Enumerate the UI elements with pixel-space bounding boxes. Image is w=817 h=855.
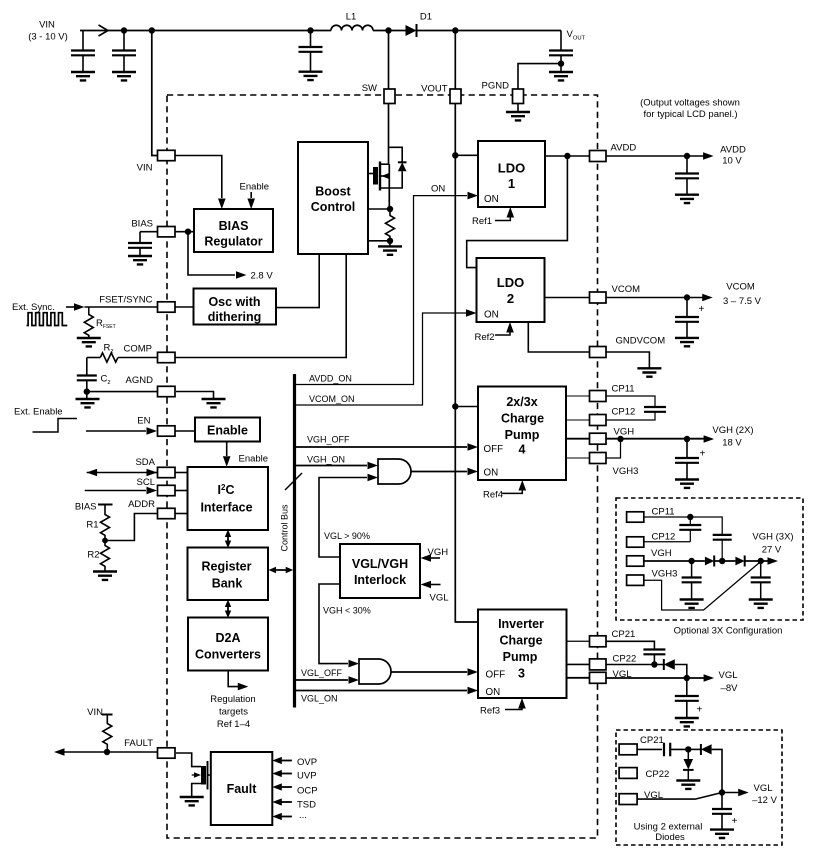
svg-text:Register: Register <box>201 560 251 574</box>
svg-text:AVDD_ON: AVDD_ON <box>309 374 352 384</box>
svg-text:AVDD: AVDD <box>720 145 746 156</box>
svg-text:VGL: VGL <box>718 670 737 681</box>
svg-text:Enable: Enable <box>207 424 248 438</box>
svg-text:–8V: –8V <box>721 683 739 694</box>
svg-text:CP22: CP22 <box>613 654 637 665</box>
svg-text:Inverter: Inverter <box>498 617 544 631</box>
svg-text:Regulation: Regulation <box>210 694 255 705</box>
svg-text:I2C: I2C <box>218 483 235 497</box>
svg-text:CP12: CP12 <box>612 407 636 418</box>
svg-text:Ext. Enable: Ext. Enable <box>14 407 63 418</box>
svg-text:Enable: Enable <box>240 182 270 193</box>
svg-text:Regulator: Regulator <box>204 235 262 249</box>
svg-text:2x/3x: 2x/3x <box>506 395 537 409</box>
svg-text:2: 2 <box>507 291 514 306</box>
svg-text:10 V: 10 V <box>722 156 742 167</box>
svg-text:D2A: D2A <box>215 631 240 645</box>
svg-text:+: + <box>732 816 738 827</box>
svg-text:VIN: VIN <box>87 707 103 718</box>
svg-text:OFF: OFF <box>484 444 504 455</box>
svg-text:AGND: AGND <box>126 375 154 386</box>
svg-text:Ref4: Ref4 <box>483 490 503 501</box>
svg-text:LDO: LDO <box>497 275 524 290</box>
svg-text:VGH_ON: VGH_ON <box>307 455 345 465</box>
svg-text:VGL/VGH: VGL/VGH <box>352 557 408 571</box>
svg-text:TSD: TSD <box>297 800 316 811</box>
svg-text:CP11: CP11 <box>612 384 635 395</box>
svg-text:VGH: VGH <box>428 547 449 558</box>
svg-text:BIAS: BIAS <box>131 219 153 230</box>
svg-text:VGH (3X): VGH (3X) <box>752 532 793 543</box>
svg-text:VGL: VGL <box>613 669 632 680</box>
svg-text:VGL: VGL <box>753 783 772 794</box>
svg-text:VOUT: VOUT <box>421 84 448 95</box>
svg-text:ON: ON <box>484 194 499 205</box>
svg-text:(Output voltages shown: (Output voltages shown <box>640 98 740 109</box>
svg-text:VGH: VGH <box>651 548 672 559</box>
svg-text:FAULT: FAULT <box>124 738 153 749</box>
svg-text:Using 2 external: Using 2 external <box>634 822 703 833</box>
svg-text:OVP: OVP <box>297 757 317 768</box>
svg-text:ON: ON <box>484 310 499 321</box>
svg-text:Diodes: Diodes <box>655 832 685 843</box>
svg-text:COMP: COMP <box>124 344 153 355</box>
svg-text:+: + <box>699 304 705 315</box>
svg-text:L1: L1 <box>346 12 357 23</box>
svg-text:D1: D1 <box>420 12 432 23</box>
svg-text:27 V: 27 V <box>762 545 782 556</box>
svg-text:CP11: CP11 <box>652 507 675 518</box>
svg-text:ON: ON <box>484 468 499 479</box>
svg-text:+: + <box>700 449 706 460</box>
svg-text:3 – 7.5 V: 3 – 7.5 V <box>723 296 762 307</box>
svg-text:VGL: VGL <box>644 790 663 801</box>
svg-text:VGL: VGL <box>430 593 449 604</box>
svg-text:Ref3: Ref3 <box>480 706 500 717</box>
svg-text:VGH: VGH <box>614 427 635 438</box>
svg-text:targets: targets <box>219 707 248 718</box>
svg-text:CP22: CP22 <box>646 769 670 780</box>
svg-text:LDO: LDO <box>498 161 525 176</box>
svg-text:Pump: Pump <box>505 428 540 442</box>
svg-text:Converters: Converters <box>195 648 261 662</box>
svg-text:Charge: Charge <box>499 634 542 648</box>
svg-text:Osc with: Osc with <box>208 295 260 309</box>
svg-text:SCL: SCL <box>137 477 155 488</box>
svg-text:(3 - 10 V): (3 - 10 V) <box>28 32 68 43</box>
svg-text:PGND: PGND <box>482 81 510 92</box>
svg-text:4: 4 <box>519 443 526 457</box>
svg-text:for typical LCD panel.): for typical LCD panel.) <box>644 109 738 120</box>
svg-text:OFF: OFF <box>486 670 506 681</box>
svg-text:+: + <box>697 705 703 716</box>
svg-text:dithering: dithering <box>208 310 261 324</box>
svg-text:–12 V: –12 V <box>752 795 777 806</box>
svg-text:VGH (2X): VGH (2X) <box>712 425 753 436</box>
svg-text:VGH_OFF: VGH_OFF <box>307 435 350 445</box>
svg-text:Control Bus: Control Bus <box>280 504 290 552</box>
svg-text:R1: R1 <box>86 520 98 531</box>
svg-text:Ref2: Ref2 <box>475 332 495 343</box>
svg-text:VIN: VIN <box>39 20 55 31</box>
svg-text:Bank: Bank <box>212 577 243 591</box>
svg-text:UVP: UVP <box>297 771 317 782</box>
svg-text:Enable: Enable <box>239 454 269 465</box>
svg-text:BIAS: BIAS <box>75 502 97 513</box>
svg-text:Boost: Boost <box>315 185 351 199</box>
svg-text:VCOM: VCOM <box>612 284 641 295</box>
svg-text:VIN: VIN <box>137 163 153 174</box>
svg-text:Optional 3X Configuration: Optional 3X Configuration <box>674 626 783 637</box>
svg-text:2.8 V: 2.8 V <box>251 271 274 282</box>
svg-text:1: 1 <box>508 176 515 191</box>
svg-text:...: ... <box>299 810 307 821</box>
svg-text:OCP: OCP <box>297 786 318 797</box>
svg-text:CP21: CP21 <box>612 629 636 640</box>
svg-text:VGH < 30%: VGH < 30% <box>323 606 371 616</box>
svg-text:VGH3: VGH3 <box>613 466 639 477</box>
svg-text:VGH3: VGH3 <box>652 569 678 580</box>
svg-text:VGL > 90%: VGL > 90% <box>324 531 370 541</box>
svg-text:Interface: Interface <box>200 501 252 515</box>
svg-text:Ref 1–4: Ref 1–4 <box>217 719 250 730</box>
svg-text:18 V: 18 V <box>722 438 742 449</box>
svg-text:VGL_ON: VGL_ON <box>301 694 338 704</box>
svg-text:EN: EN <box>137 416 150 427</box>
svg-text:ON: ON <box>486 687 501 698</box>
svg-text:VGL_OFF: VGL_OFF <box>301 668 343 678</box>
svg-text:AVDD: AVDD <box>611 143 637 154</box>
svg-text:GNDVCOM: GNDVCOM <box>616 336 666 347</box>
svg-text:Charge: Charge <box>501 412 544 426</box>
svg-text:Ref1: Ref1 <box>472 216 492 227</box>
svg-text:FSET/SYNC: FSET/SYNC <box>99 295 152 306</box>
svg-text:BIAS: BIAS <box>219 219 249 233</box>
svg-text:VCOM_ON: VCOM_ON <box>309 394 355 404</box>
svg-text:VCOM: VCOM <box>726 282 755 293</box>
svg-text:Interlock: Interlock <box>354 573 406 587</box>
svg-text:CP12: CP12 <box>652 532 676 543</box>
svg-text:ON: ON <box>431 184 445 195</box>
svg-text:Control: Control <box>311 200 355 214</box>
svg-text:Fault: Fault <box>227 782 258 796</box>
svg-text:R2: R2 <box>87 550 99 561</box>
svg-text:SDA: SDA <box>135 457 155 468</box>
svg-text:Ext. Sync.: Ext. Sync. <box>12 302 55 313</box>
svg-text:Pump: Pump <box>503 650 538 664</box>
svg-text:CP21: CP21 <box>640 735 664 746</box>
svg-text:3: 3 <box>518 667 525 681</box>
svg-text:SW: SW <box>362 83 377 94</box>
svg-text:ADDR: ADDR <box>128 499 155 510</box>
